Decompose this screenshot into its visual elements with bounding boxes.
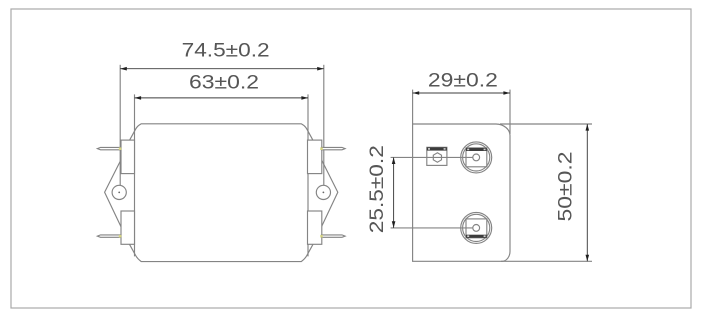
svg-text:74.5±0.2: 74.5±0.2 <box>182 40 270 61</box>
svg-text:50±0.2: 50±0.2 <box>556 152 577 222</box>
svg-text:29±0.2: 29±0.2 <box>428 70 498 91</box>
svg-text:63±0.2: 63±0.2 <box>189 73 259 94</box>
svg-text:25.5±0.2: 25.5±0.2 <box>367 145 388 233</box>
